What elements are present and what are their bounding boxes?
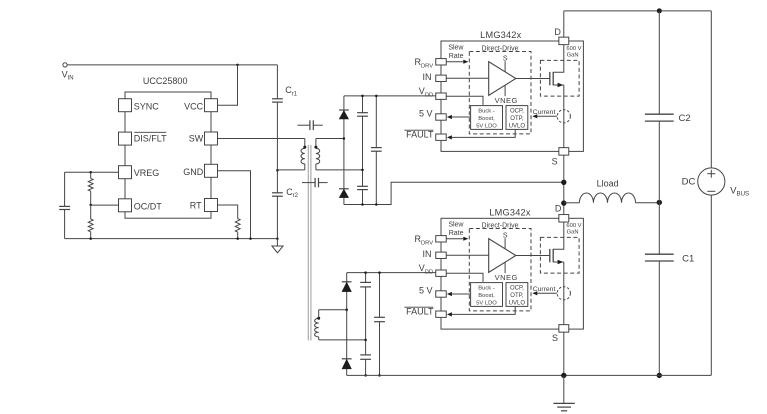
svg-text:UVLO: UVLO [509, 301, 526, 307]
wire Cr branch [276, 65, 278, 239]
svg-text:S: S [552, 333, 558, 343]
transformer T1 secondary winding S2 [315, 310, 319, 340]
svg-text:GaN: GaN [567, 229, 579, 235]
svg-text:Direct-Drive: Direct-Drive [482, 222, 519, 229]
node S lower ground [561, 373, 566, 378]
pin RDRV U2 [415, 234, 447, 246]
svg-text:DC: DC [682, 177, 696, 188]
ground GND2 power earth [553, 375, 574, 410]
svg-text:RT: RT [190, 200, 202, 210]
node D1-secondary [343, 137, 346, 140]
svg-text:Direct-Drive: Direct-Drive [482, 45, 519, 52]
capacitor CV1 upper [357, 112, 368, 114]
capacitor Cr2 [272, 187, 299, 199]
resistor R1 [88, 172, 93, 205]
wire ground rail [347, 374, 712, 376]
svg-text:Rate: Rate [449, 53, 464, 60]
wire bottom-left ground return [65, 238, 278, 240]
transformer T1 core [308, 145, 311, 341]
wire GND down [218, 171, 251, 239]
wire VDD to buck U2 [446, 273, 483, 282]
wire S upper to D lower [563, 155, 565, 214]
node VCC junction [236, 64, 239, 67]
pin SW [189, 132, 218, 145]
node primary bottom [276, 169, 279, 172]
capacitor interwinding top [298, 120, 323, 130]
wire VDD rail lower [347, 272, 437, 274]
svg-text:OTP,: OTP, [510, 293, 524, 299]
dashed box Direct-Drive U1 [469, 45, 531, 134]
node mid-ref lower [364, 339, 367, 342]
svg-text:VNEG: VNEG [495, 96, 518, 105]
pin SYNC [119, 99, 160, 112]
box buck-boost U1 [471, 106, 503, 130]
pin RT [190, 199, 218, 212]
dashed box Direct-Drive U2 [469, 222, 531, 311]
svg-text:FAULT: FAULT [406, 307, 434, 317]
svg-text:5V LDO: 5V LDO [476, 300, 497, 306]
svg-text:5 V: 5 V [419, 285, 433, 295]
wire D upper to rail [563, 11, 565, 37]
wire secondary S1 top [316, 138, 344, 140]
svg-text:D: D [555, 204, 562, 214]
node D3-secondary [345, 309, 348, 312]
node VREG-R1 [89, 171, 92, 174]
svg-text:Boost,: Boost, [478, 293, 495, 299]
box OCP OTP UVLO U2 [506, 283, 528, 307]
svg-text:C1: C1 [682, 254, 694, 265]
svg-text:Slew: Slew [448, 221, 464, 228]
secondary S2 phase dot [317, 317, 320, 320]
pin IN U1 [423, 72, 447, 82]
pin FAULT U2 [404, 307, 446, 318]
wire source to S pin U2 [563, 262, 565, 325]
svg-text:Buck -: Buck - [478, 286, 494, 292]
diode D2 [339, 188, 349, 190]
capacitor Cr1 [272, 85, 298, 102]
node right-rail upper [375, 95, 378, 98]
label 600V GaN U2 [566, 223, 581, 235]
svg-text:OCP,: OCP, [510, 286, 524, 292]
svg-text:Current: Current [533, 109, 556, 116]
diode D3 [342, 281, 352, 283]
node mid-ref upper [361, 169, 364, 172]
voltage source VBUS DC [682, 11, 750, 376]
driver amp triangle U2 [489, 239, 516, 273]
node right-rail lower [378, 271, 381, 274]
node OCDT-R1 [89, 204, 92, 207]
wire S lower to ground rail [563, 332, 565, 375]
wire source to S pin U1 [563, 85, 565, 148]
node mid-rail lower [364, 271, 367, 274]
diode D4 [342, 358, 352, 360]
slew rate arrow U2 [446, 221, 468, 241]
svg-text:DIS/FLT: DIS/FLT [134, 134, 167, 144]
svg-text:600 V: 600 V [566, 46, 581, 52]
pin 5V U2 [419, 285, 446, 297]
svg-text:IN: IN [423, 72, 432, 82]
resistor R2 [88, 205, 93, 239]
wire 5V arrow U2 [447, 292, 471, 296]
node mid-rail upper [361, 95, 364, 98]
wire rectifier right lower [379, 273, 381, 376]
wire driver to gate U1 [516, 78, 550, 80]
svg-text:UVLO: UVLO [509, 124, 526, 130]
wire primary bottom to Cr node [277, 169, 304, 171]
svg-text:OCP,: OCP, [510, 109, 524, 115]
svg-text:GaN: GaN [567, 52, 579, 58]
driver amp triangle U1 [489, 62, 516, 96]
svg-text:Current: Current [533, 286, 556, 293]
node R2 bottom [89, 237, 92, 240]
svg-text:D: D [554, 27, 561, 37]
wire 5V arrow U1 [447, 115, 471, 119]
svg-text:OC/DT: OC/DT [134, 201, 163, 211]
pin D U2 [555, 204, 569, 222]
svg-text:600 V: 600 V [566, 223, 581, 229]
inductor Lload [564, 178, 660, 202]
wire secondary S2 bottom [319, 339, 366, 341]
box buck-boost U2 [471, 283, 503, 307]
resistor R3 [235, 219, 240, 239]
label VNEG U2 [495, 262, 518, 282]
pin VDD U1 [419, 86, 447, 99]
capacitor CV2 upper [357, 185, 368, 187]
svg-text:LMG342x: LMG342x [480, 30, 521, 40]
pin VCC [184, 99, 217, 112]
dashed box GaN FET U2 [540, 237, 579, 273]
label VNEG U1 [495, 85, 518, 105]
capacitor CB lower [374, 316, 385, 318]
wire FAULT arrow U2 [447, 306, 515, 316]
pin DIS/FLT [119, 132, 168, 145]
transistor Q1 GaN FET [550, 45, 564, 88]
wire IN to driver U1 [446, 77, 488, 79]
svg-text:IN: IN [423, 249, 432, 259]
capacitor C-VREG [59, 172, 70, 238]
svg-text:S: S [552, 156, 558, 166]
node C1 bottom [657, 373, 662, 378]
svg-text:GND: GND [183, 167, 204, 177]
pin S U1 [552, 148, 569, 167]
node ground-Cr2 [276, 237, 279, 240]
wire OC/DT left [91, 204, 119, 206]
node top rail C2 [657, 8, 662, 13]
label S node U2 [503, 232, 508, 249]
pin VREG [119, 166, 160, 179]
current sense source U1 [532, 109, 570, 123]
node right-gnd lower [378, 374, 381, 377]
box OCP OTP UVLO U1 [506, 106, 528, 130]
svg-text:Boost,: Boost, [478, 116, 495, 122]
svg-text:Rate: Rate [449, 230, 464, 237]
svg-text:LMG342x: LMG342x [489, 207, 530, 217]
capacitor CV1 lower [360, 281, 371, 283]
wire secondary S2 top [319, 309, 347, 311]
svg-text:OTP,: OTP, [510, 116, 524, 122]
gate driver U2 LMG342x body [441, 207, 583, 329]
capacitor CV2 lower [360, 354, 371, 356]
current sense source U2 [532, 286, 570, 300]
wire top rail [564, 10, 712, 12]
label S node U1 [503, 55, 508, 72]
node mid-vneg upper [361, 203, 364, 206]
pin S U2 [552, 325, 569, 343]
pin D U1 [554, 27, 568, 45]
wire rectifier right upper [375, 96, 377, 205]
node source-VNEG [561, 180, 566, 185]
wire rectifier mid upper [362, 96, 364, 205]
dashed box GaN FET U1 [540, 60, 579, 96]
wire VCC to top rail [218, 65, 238, 105]
secondary S1 phase dot [314, 146, 317, 149]
svg-text:VCC: VCC [184, 102, 204, 112]
terminal VIN [62, 63, 74, 82]
IC U1 UCC25800 body [125, 76, 211, 218]
wire VREG left [65, 171, 119, 173]
capacitor CB upper [371, 147, 382, 149]
pin FAULT U1 [404, 130, 446, 141]
pin RDRV U1 [415, 57, 447, 69]
svg-text:Slew: Slew [448, 44, 464, 51]
wire FAULT arrow U1 [447, 129, 515, 139]
svg-text:SW: SW [189, 134, 204, 144]
svg-text:SYNC: SYNC [134, 102, 160, 112]
wire driver to gate U2 [516, 255, 550, 257]
svg-text:5 V: 5 V [419, 108, 433, 118]
wire RT to R3 [218, 205, 238, 219]
pin OC/DT [119, 199, 163, 212]
wire VDD to buck U1 [446, 96, 483, 105]
node R3 bottom [236, 237, 239, 240]
wire secondary S1 bottom [316, 169, 363, 171]
pin VDD U2 [419, 263, 447, 276]
svg-text:UCC25800: UCC25800 [143, 76, 188, 86]
transformer T1 primary winding [301, 139, 305, 170]
transistor Q2 GaN FET [550, 222, 564, 264]
slew rate arrow U1 [446, 44, 468, 64]
svg-text:VREG: VREG [134, 168, 160, 178]
diode D1 [339, 109, 349, 111]
wire VDD rail upper [344, 95, 436, 97]
node right-vneg upper [375, 203, 378, 206]
wire VNEG rail upper to source [344, 182, 564, 204]
pin IN U2 [423, 249, 447, 259]
ground GND1 signal ground [272, 239, 283, 253]
wire SW to transformer primary [218, 138, 305, 140]
svg-text:VNEG: VNEG [495, 273, 518, 282]
svg-text:C2: C2 [679, 113, 691, 124]
node GND wire bottom [249, 237, 252, 240]
svg-text:5V LDO: 5V LDO [476, 123, 497, 129]
capacitor interwinding bottom [302, 178, 328, 187]
wire VIN to Cr1 top [67, 64, 277, 66]
capacitor C1 [645, 202, 694, 375]
svg-text:Buck -: Buck - [478, 109, 494, 115]
node Lload right [657, 200, 662, 205]
transformer T1 secondary winding S1 [316, 139, 320, 170]
node switch-node [561, 200, 566, 205]
pin 5V U1 [419, 108, 446, 120]
svg-text:Lload: Lload [597, 178, 619, 188]
primary phase dot [303, 146, 306, 149]
wire rectifier mid lower [365, 273, 367, 376]
wire IN to driver U2 [446, 254, 488, 256]
capacitor C2 [645, 11, 691, 203]
label 600V GaN U1 [566, 46, 581, 58]
svg-text:FAULT: FAULT [406, 130, 434, 140]
wire rectifier left upper [343, 96, 345, 205]
gate driver U1 LMG342x body [441, 30, 583, 151]
node mid-gnd lower [364, 374, 367, 377]
wire rectifier left lower [346, 273, 348, 376]
pin GND [183, 164, 217, 177]
